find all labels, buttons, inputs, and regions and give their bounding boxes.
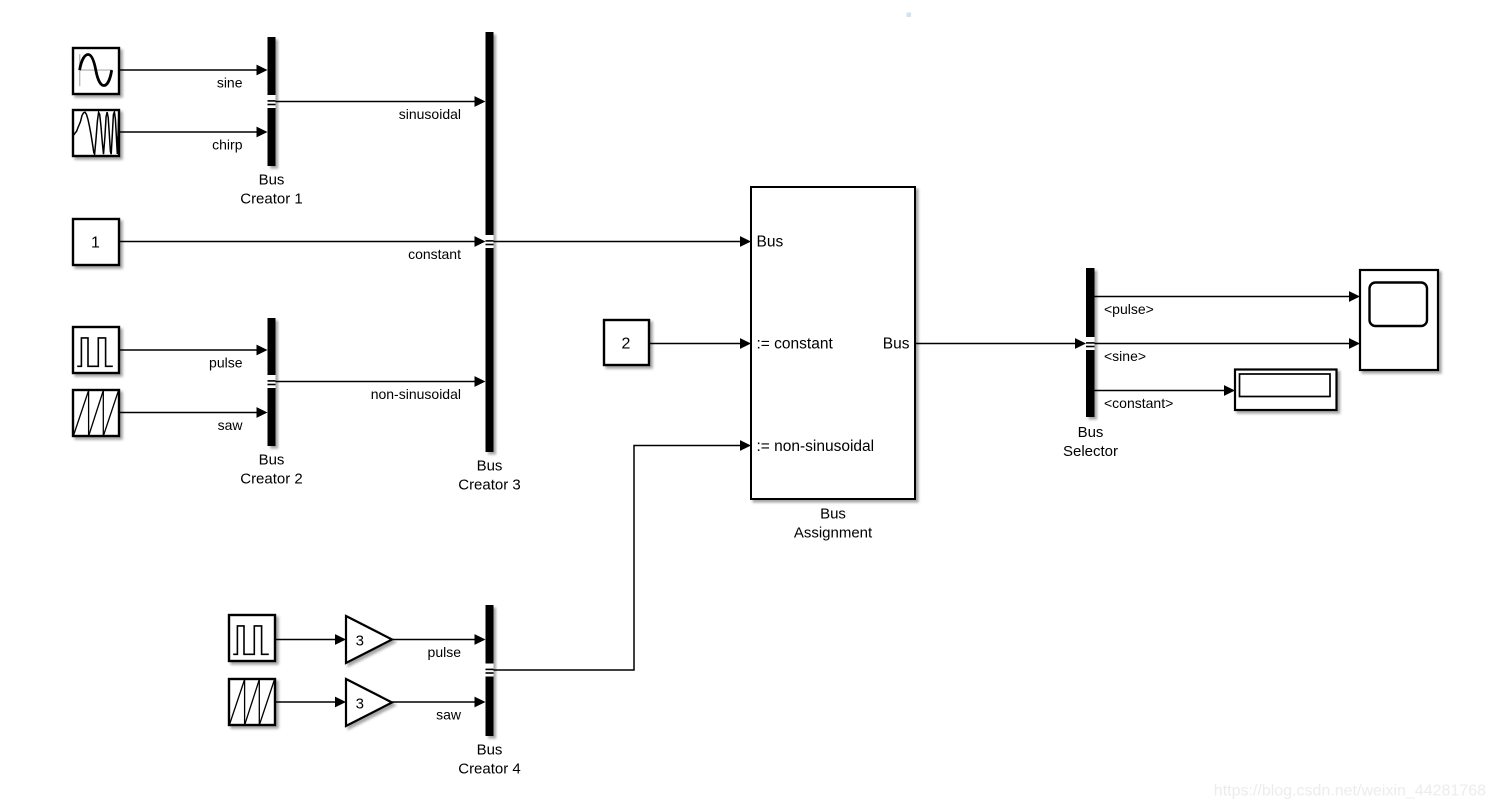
- wire Bus Assignment to Bus Selector: [915, 338, 1086, 349]
- svg-text:constant: constant: [408, 246, 461, 262]
- label Bus Creator 2: [240, 452, 303, 488]
- svg-text:Bus: Bus: [1078, 424, 1104, 441]
- label Bus Creator 4: [458, 742, 521, 778]
- wire Bus Selector constant to Display: [1095, 385, 1236, 396]
- Bus Assignment block: [751, 187, 915, 499]
- svg-text:saw: saw: [218, 417, 244, 433]
- Scope block: [1360, 270, 1438, 370]
- wire Bus Creator 1 to Bus Creator 3: [276, 96, 486, 107]
- wire Gain 1 to Bus Creator 4: [392, 634, 486, 645]
- svg-text:Bus: Bus: [883, 336, 910, 353]
- wire Bus Selector pulse to Scope: [1095, 291, 1361, 302]
- svg-text:non-sinusoidal: non-sinusoidal: [371, 386, 461, 402]
- svg-text:pulse: pulse: [428, 644, 462, 660]
- wire pulse to Bus Creator 2: [119, 345, 268, 356]
- sine wave source block: [73, 48, 119, 94]
- svg-text:1: 1: [91, 235, 100, 252]
- svg-text:Bus: Bus: [477, 742, 503, 759]
- label Bus Selector: [1063, 424, 1118, 460]
- svg-text:saw: saw: [436, 707, 462, 723]
- svg-text:Creator 2: Creator 2: [240, 471, 303, 488]
- svg-text:https://blog.csdn.net/weixin_4: https://blog.csdn.net/weixin_44281768: [1214, 783, 1486, 800]
- pulse generator block: [73, 327, 119, 373]
- svg-text:chirp: chirp: [212, 137, 243, 153]
- svg-text:Assignment: Assignment: [794, 525, 873, 542]
- svg-text:sinusoidal: sinusoidal: [399, 106, 461, 122]
- wire Bus Creator 4 to Bus Assignment (non-sinusoidal input, L-shaped): [494, 440, 752, 670]
- wire saw 2 to Gain 2: [275, 697, 346, 708]
- svg-text:<constant>: <constant>: [1104, 395, 1173, 411]
- gain block 3 (lower): [346, 679, 392, 726]
- chirp signal source block: [73, 110, 119, 156]
- blue artifact square: [907, 13, 912, 18]
- pulse generator block 2: [229, 615, 275, 661]
- saw tooth source block 2: [229, 679, 275, 725]
- wire constant 1 to Bus Creator 3: [119, 236, 486, 247]
- svg-text:3: 3: [356, 696, 364, 713]
- gain block 3 (upper): [346, 616, 392, 663]
- wire Gain 2 to Bus Creator 4: [392, 697, 486, 708]
- wire Bus Creator 2 to Bus Creator 3: [276, 376, 486, 387]
- svg-text:Bus: Bus: [259, 172, 285, 189]
- svg-text:2: 2: [622, 336, 631, 353]
- svg-text:3: 3: [356, 633, 364, 650]
- Bus Creator 4 bar: [486, 605, 494, 736]
- constant block 1: [73, 219, 119, 265]
- svg-text:Bus: Bus: [820, 506, 846, 523]
- svg-text::= non-sinusoidal: := non-sinusoidal: [757, 438, 875, 455]
- label Bus Creator 3: [458, 458, 521, 494]
- svg-text:Bus: Bus: [477, 458, 503, 475]
- wire pulse 2 to Gain 1: [275, 634, 346, 645]
- wire sine block to Bus Creator 1: [119, 65, 268, 76]
- wire Bus Selector sine to Scope: [1095, 338, 1361, 349]
- Bus Creator 2 bar: [268, 318, 276, 446]
- wire Bus Creator 3 to Bus Assignment: [494, 236, 752, 247]
- wire saw to Bus Creator 2: [119, 407, 268, 418]
- svg-text:pulse: pulse: [209, 355, 243, 371]
- svg-text:Bus: Bus: [757, 234, 784, 251]
- svg-text:Creator 4: Creator 4: [458, 761, 521, 778]
- constant block 2: [604, 320, 649, 365]
- Bus Selector bar: [1086, 268, 1095, 417]
- Bus Creator 3 bar: [486, 32, 494, 452]
- svg-text::= constant: := constant: [757, 336, 834, 353]
- Bus Creator 1 bar: [268, 37, 276, 166]
- svg-text:<pulse>: <pulse>: [1104, 301, 1154, 317]
- svg-text:Creator 1: Creator 1: [240, 191, 303, 208]
- wire chirp block to Bus Creator 1: [119, 127, 268, 138]
- svg-text:sine: sine: [217, 75, 243, 91]
- wire constant 2 to Bus Assignment: [649, 338, 751, 349]
- label Bus Assignment: [794, 506, 873, 542]
- svg-text:Selector: Selector: [1063, 443, 1118, 460]
- svg-text:Bus: Bus: [259, 452, 285, 469]
- saw tooth source block: [73, 390, 119, 436]
- Display block: [1235, 370, 1337, 411]
- label Bus Creator 1: [240, 172, 303, 208]
- svg-text:Creator 3: Creator 3: [458, 477, 521, 494]
- svg-text:<sine>: <sine>: [1104, 348, 1146, 364]
